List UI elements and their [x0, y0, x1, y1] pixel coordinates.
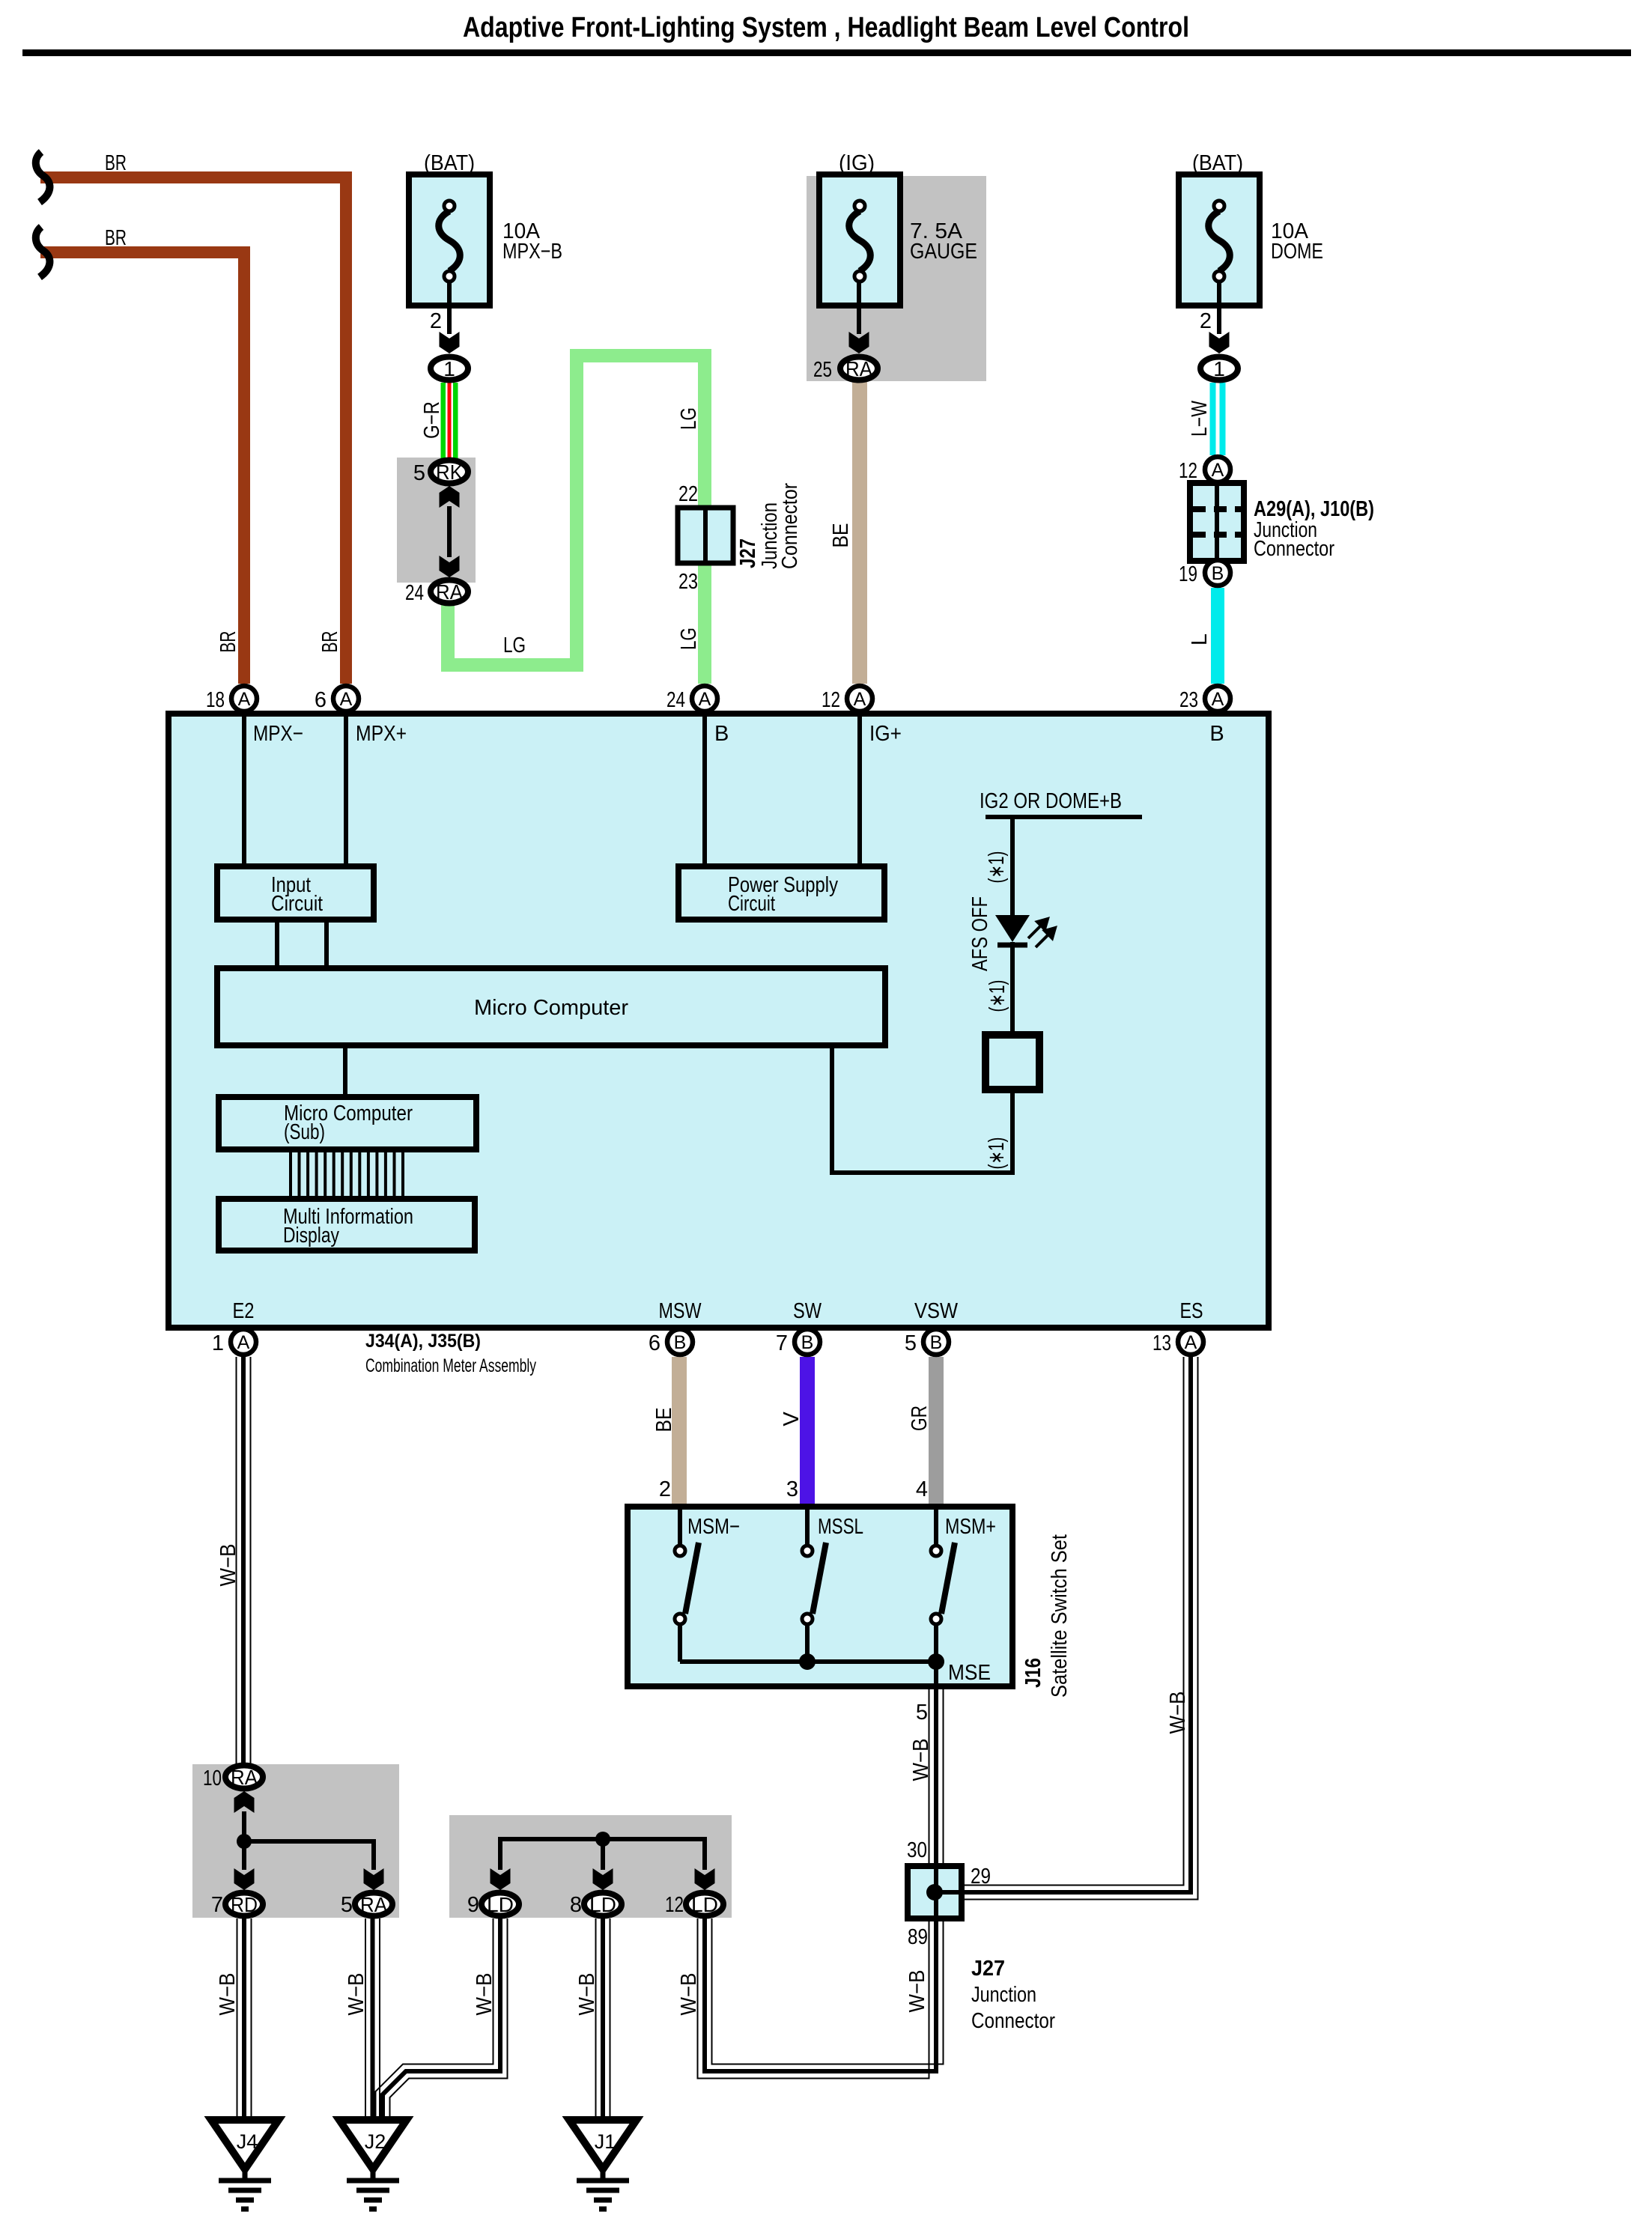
- wire micro computer to sub: [343, 1045, 347, 1097]
- svg-text:LG: LG: [677, 407, 701, 430]
- wire GR from VSW 5(B) to satellite pin 4: [929, 1357, 944, 1507]
- wire from GAUGE fuse: [857, 282, 861, 334]
- switch MSSL bottom contact: [802, 1614, 813, 1624]
- input circuit box: [217, 866, 374, 920]
- connector 12(A): [847, 686, 872, 711]
- wire dot to RA branch: [244, 1841, 374, 1870]
- micro computer box: [217, 968, 885, 1045]
- svg-text:19: 19: [1179, 562, 1197, 586]
- arrow into 25(RA): [849, 332, 869, 353]
- wire 12(A) to power supply: [857, 714, 862, 869]
- fuse 7.5A GAUGE (IG): [819, 174, 900, 306]
- wire LED to IG2 bus: [1010, 817, 1015, 915]
- svg-text:G−R: G−R: [420, 401, 444, 439]
- svg-text:MSM−: MSM−: [687, 1515, 740, 1539]
- LED light arrows: [1028, 919, 1055, 947]
- title underline rule: [22, 49, 1631, 56]
- switch MSSL blade: [813, 1543, 826, 1614]
- connector oval RA (24): [431, 580, 468, 604]
- svg-text:1: 1: [1213, 357, 1225, 380]
- svg-text:B: B: [714, 722, 729, 746]
- arrow down to 8(LD): [593, 1868, 613, 1890]
- wire W-B from E2 1(A) to shield 10(RA): [236, 1357, 237, 1764]
- grey background behind shield RA/RD connectors: [192, 1764, 399, 1918]
- wire L-W cyan from DOME 1 to 12(A) junction: [1210, 383, 1226, 455]
- svg-text:W−B: W−B: [1166, 1692, 1190, 1734]
- connector 1(A) E2: [231, 1329, 256, 1355]
- arrow up to 10(RA): [234, 1791, 255, 1813]
- svg-text:13: 13: [1153, 1331, 1171, 1355]
- svg-text:W−B: W−B: [473, 1973, 496, 2016]
- svg-text:6: 6: [649, 1331, 661, 1355]
- svg-text:BR: BR: [216, 631, 240, 653]
- LED cathode bar: [997, 943, 1027, 948]
- connector circle 12(A) A29: [1205, 457, 1230, 482]
- wire from MPX-B fuse pin 2: [447, 282, 452, 334]
- svg-text:1: 1: [212, 1331, 224, 1355]
- svg-text:RA: RA: [845, 357, 872, 380]
- connector 6(B) MSW: [667, 1329, 693, 1355]
- wires input circuit to micro computer: [275, 920, 279, 968]
- svg-text:B: B: [1209, 722, 1224, 746]
- connector 13(A) ES: [1178, 1329, 1203, 1355]
- connector oval 9(LD): [482, 1893, 519, 1916]
- svg-text:LG: LG: [677, 628, 701, 650]
- svg-text:W−B: W−B: [677, 1973, 701, 2016]
- svg-text:J16: J16: [1021, 1658, 1045, 1688]
- svg-text:12: 12: [822, 688, 840, 712]
- svg-text:Micro Computer: Micro Computer: [474, 996, 628, 1020]
- svg-text:LD: LD: [487, 1893, 514, 1916]
- fuse 10A MPX-B (BAT): [409, 174, 490, 306]
- svg-text:DOME: DOME: [1271, 240, 1323, 264]
- svg-text:A: A: [237, 1332, 250, 1353]
- grey background behind GAUGE fuse: [807, 176, 986, 381]
- switch MSM- wire stub: [678, 1507, 682, 1544]
- wire BE from MSW 6(B) to satellite pin 2: [672, 1357, 687, 1507]
- power supply circuit box: [678, 866, 884, 920]
- svg-text:J2: J2: [365, 2130, 386, 2153]
- svg-text:5: 5: [413, 461, 425, 485]
- svg-text:(Sub): (Sub): [284, 1120, 325, 1144]
- svg-text:5: 5: [341, 1893, 353, 1917]
- svg-text:LD: LD: [691, 1893, 718, 1916]
- svg-text:LD: LD: [589, 1893, 616, 1916]
- svg-text:2: 2: [430, 309, 442, 333]
- ground J2: [339, 2120, 407, 2209]
- svg-text:W−B: W−B: [909, 1739, 933, 1781]
- svg-text:A: A: [854, 689, 866, 710]
- svg-text:MSW: MSW: [659, 1299, 702, 1323]
- A29 vertical divider: [1215, 483, 1219, 561]
- svg-text:Connector: Connector: [1254, 537, 1334, 561]
- wire MSE to box edge: [934, 1662, 938, 1686]
- svg-text:GR: GR: [908, 1406, 932, 1431]
- junction dot shield left: [237, 1834, 252, 1849]
- wire W-B from 12(LD) to J27 pin 89: [698, 1918, 929, 2079]
- multi information display box: [219, 1199, 475, 1251]
- svg-text:J27: J27: [971, 1957, 1005, 1981]
- svg-text:Satellite Switch Set: Satellite Switch Set: [1048, 1534, 1072, 1698]
- arrow into connector 1 (MPX-B): [440, 332, 460, 353]
- svg-text:7: 7: [776, 1331, 788, 1355]
- svg-text:30: 30: [907, 1838, 927, 1862]
- svg-text:12: 12: [1179, 459, 1197, 483]
- switch MSM- bottom contact: [675, 1614, 685, 1624]
- svg-text:BR: BR: [105, 151, 127, 175]
- svg-text:A: A: [1185, 1332, 1197, 1353]
- svg-text:W−B: W−B: [344, 1973, 368, 2016]
- wire W-B from 5(RA) to ground J2: [365, 1918, 366, 2120]
- wire G-R red stripe: [448, 383, 452, 458]
- wire W-B from 8(LD) to ground J1: [595, 1918, 597, 2120]
- svg-text:Circuit: Circuit: [728, 892, 775, 916]
- wire 18(A) to input circuit: [242, 714, 246, 869]
- connector oval 1 (DOME): [1200, 357, 1238, 380]
- connector 24(A): [692, 686, 717, 711]
- svg-text:MPX+: MPX+: [356, 722, 407, 746]
- svg-text:IG+: IG+: [869, 722, 902, 746]
- svg-text:RK: RK: [436, 461, 463, 484]
- A29 dashed row lines: [1193, 506, 1241, 512]
- svg-text:RA: RA: [360, 1893, 387, 1916]
- wire 6(A) to input circuit: [344, 714, 348, 869]
- svg-text:29: 29: [971, 1865, 991, 1889]
- ground J1: [569, 2120, 637, 2209]
- svg-text:(∗1): (∗1): [985, 851, 1009, 884]
- connector 7(B) SW: [795, 1329, 820, 1355]
- switch MSM- to bus: [678, 1626, 682, 1662]
- wire 24(A) to power supply: [702, 714, 707, 869]
- junction connector J27 lower box: [908, 1866, 962, 1918]
- svg-text:MSM+: MSM+: [945, 1515, 996, 1539]
- svg-text:LG: LG: [503, 634, 526, 657]
- arrow down to 5(RA): [364, 1868, 384, 1890]
- connector 6(A): [333, 686, 359, 711]
- svg-text:B: B: [674, 1332, 687, 1353]
- svg-text:W−B: W−B: [216, 1973, 240, 2016]
- wire L-W white stripe: [1216, 383, 1220, 455]
- connector 23(A): [1205, 686, 1230, 711]
- arrow down to RA: [440, 556, 460, 577]
- wire resistor to LED: [1010, 942, 1015, 1035]
- AFS resistor square: [986, 1035, 1039, 1090]
- svg-text:2: 2: [1200, 309, 1212, 333]
- wire dot to RD: [242, 1841, 246, 1870]
- break symbol on lower BR wire: [36, 227, 50, 277]
- junction connector J27 box: [678, 508, 733, 563]
- svg-text:RA: RA: [231, 1766, 258, 1789]
- wire W-B from MSE pin 5 to J27 pin 30: [929, 1686, 930, 1866]
- svg-text:IG2 OR DOME+B: IG2 OR DOME+B: [980, 789, 1122, 813]
- svg-text:89: 89: [908, 1925, 928, 1949]
- svg-text:(BAT): (BAT): [424, 151, 475, 175]
- svg-text:RA: RA: [436, 580, 463, 604]
- svg-text:J1: J1: [595, 2130, 616, 2153]
- svg-text:ES: ES: [1180, 1299, 1203, 1323]
- hatch lines between sub and display: [289, 1149, 292, 1199]
- wire BE from 25(RA) to 12(A): [852, 378, 867, 684]
- svg-text:7: 7: [211, 1893, 223, 1917]
- switch MSSL wire stub: [805, 1507, 810, 1544]
- junction connector A29(A) J10(B) box: [1190, 483, 1244, 561]
- wire V from SW 7(B) to satellite pin 3: [800, 1357, 815, 1507]
- break symbol on upper BR wire: [36, 152, 50, 202]
- switch MSM+ blade: [941, 1543, 955, 1614]
- arrow down to 7(RD): [234, 1868, 255, 1890]
- svg-text:L: L: [1188, 634, 1212, 645]
- svg-text:Display: Display: [283, 1224, 339, 1248]
- svg-text:1: 1: [443, 357, 455, 380]
- svg-text:Adaptive Front-Lighting System: Adaptive Front-Lighting System , Headlig…: [463, 12, 1189, 43]
- svg-text:A: A: [1212, 460, 1224, 481]
- svg-text:6: 6: [315, 688, 327, 712]
- grey background behind RK/RA junction: [397, 458, 476, 583]
- svg-text:B: B: [930, 1332, 943, 1353]
- arrow down to 12(LD): [695, 1868, 715, 1890]
- svg-text:J4: J4: [237, 2130, 258, 2153]
- svg-text:Connector: Connector: [971, 2009, 1055, 2033]
- svg-text:W−B: W−B: [575, 1973, 599, 2016]
- svg-text:A: A: [1212, 689, 1224, 710]
- connector oval 1 (MPX-B): [431, 357, 468, 380]
- svg-text:12: 12: [665, 1893, 684, 1917]
- wire micro computer to AFS resistor loop: [832, 1045, 1012, 1173]
- svg-text:BR: BR: [105, 226, 127, 250]
- svg-text:W−B: W−B: [216, 1544, 240, 1587]
- svg-text:B: B: [801, 1332, 814, 1353]
- combination meter assembly box: [168, 714, 1269, 1328]
- svg-text:E2: E2: [233, 1299, 255, 1323]
- J27 divider: [703, 508, 708, 563]
- wire through J27 lower box horizontal: [935, 1890, 962, 1895]
- connector oval RA (gauge): [840, 357, 878, 380]
- svg-text:18: 18: [206, 688, 225, 712]
- svg-text:2: 2: [659, 1477, 671, 1501]
- svg-text:MSSL: MSSL: [818, 1515, 863, 1539]
- wire W-B from ES 13(A) down and left to J27 pin 29: [962, 1357, 1184, 1886]
- svg-text:V: V: [780, 1412, 804, 1427]
- connector oval 7(RD): [225, 1893, 263, 1916]
- wire from DOME fuse pin 2: [1217, 282, 1221, 334]
- svg-text:25: 25: [813, 358, 832, 382]
- wire LG from RA down-right loop to 24(A) via J27: [448, 599, 577, 665]
- LED AFS OFF triangle: [995, 915, 1030, 942]
- switch MSM+ top contact: [931, 1546, 941, 1556]
- wire L from 19(B) to 23(A): [1211, 588, 1224, 684]
- LD group bus: [500, 1839, 705, 1870]
- svg-text:A: A: [340, 689, 353, 710]
- svg-text:MPX−: MPX−: [253, 722, 303, 746]
- svg-text:(IG): (IG): [839, 151, 875, 175]
- svg-text:23: 23: [678, 570, 698, 594]
- switch MSM- blade: [685, 1543, 699, 1614]
- svg-text:(BAT): (BAT): [1192, 151, 1243, 175]
- IG2 OR DOME+B bus line: [986, 815, 1142, 819]
- svg-text:W−B: W−B: [905, 1970, 929, 2013]
- fuse 10A DOME (BAT): [1179, 174, 1260, 306]
- svg-text:3: 3: [786, 1477, 798, 1501]
- svg-text:B: B: [1212, 563, 1224, 584]
- wire W-B from 7(RD) to ground J4: [237, 1918, 238, 2120]
- svg-text:A: A: [238, 689, 251, 710]
- svg-text:GAUGE: GAUGE: [910, 240, 977, 264]
- satellite switch set box J16: [628, 1507, 1012, 1686]
- wire RK to RA: [447, 506, 452, 557]
- svg-text:4: 4: [916, 1477, 928, 1501]
- connector circle 19(B): [1205, 560, 1230, 586]
- wire G-R white gaps: [446, 383, 453, 458]
- svg-text:A: A: [699, 689, 711, 710]
- connector oval 5(RA): [355, 1893, 392, 1916]
- wire dot to 8LD: [601, 1839, 605, 1870]
- svg-text:J27: J27: [736, 538, 760, 568]
- svg-text:RD: RD: [231, 1893, 258, 1916]
- svg-text:(∗1): (∗1): [985, 1137, 1009, 1170]
- svg-text:24: 24: [405, 581, 424, 605]
- svg-text:24: 24: [666, 688, 685, 712]
- svg-text:Junction: Junction: [971, 1983, 1036, 2007]
- svg-text:Connector: Connector: [778, 483, 802, 569]
- svg-text:5: 5: [905, 1331, 917, 1355]
- bus junction dot MSSL: [799, 1653, 816, 1670]
- switch MSM+ bottom contact: [931, 1614, 941, 1624]
- arrow into connector 1 (DOME): [1209, 332, 1230, 353]
- wire 10RA to junction dot: [242, 1811, 246, 1841]
- switch MSSL top contact: [802, 1546, 813, 1556]
- wire G-R green stripes from connector 1 to RK: [441, 383, 458, 458]
- svg-text:10: 10: [203, 1766, 222, 1790]
- svg-text:L−W: L−W: [1188, 401, 1212, 437]
- svg-text:(∗1): (∗1): [986, 980, 1009, 1012]
- junction dot LD group: [595, 1832, 610, 1847]
- svg-text:MPX−B: MPX−B: [502, 240, 562, 264]
- bus junction dot MSE: [928, 1653, 944, 1670]
- svg-text:9: 9: [467, 1893, 479, 1917]
- wire W-B from 9(LD) jog to ground J2: [376, 1918, 494, 2120]
- arrow down to 9(LD): [491, 1868, 511, 1890]
- switch MSSL to bus: [805, 1626, 810, 1662]
- J27 lower junction dot: [926, 1884, 943, 1901]
- svg-text:J34(A), J35(B): J34(A), J35(B): [365, 1331, 481, 1352]
- svg-text:5: 5: [916, 1701, 928, 1725]
- wire BR lower horizontal+vertical to 18(A): [40, 252, 244, 684]
- switch MSM+ wire stub: [934, 1507, 938, 1544]
- connector oval RK: [431, 461, 468, 484]
- wire BR upper horizontal+vertical to 6(A): [40, 177, 346, 684]
- svg-text:AFS OFF: AFS OFF: [968, 896, 992, 971]
- connector 18(A): [231, 686, 257, 711]
- connector oval 8(LD): [584, 1893, 622, 1916]
- svg-text:22: 22: [678, 482, 698, 506]
- wire through J27 lower box vertical: [934, 1866, 938, 1918]
- svg-text:BR: BR: [318, 631, 342, 653]
- connector 5(B) VSW: [923, 1329, 949, 1355]
- svg-text:Circuit: Circuit: [271, 892, 323, 916]
- switch MSM+ to bus: [934, 1626, 938, 1662]
- svg-text:Combination Meter Assembly: Combination Meter Assembly: [365, 1355, 536, 1376]
- svg-text:VSW: VSW: [914, 1299, 959, 1323]
- connector oval 12(LD): [686, 1893, 723, 1916]
- arrow up to RK: [440, 486, 460, 508]
- svg-text:8: 8: [570, 1893, 582, 1917]
- switch common bus: [680, 1659, 936, 1664]
- switch MSM- top contact: [675, 1546, 685, 1556]
- svg-text:MSE: MSE: [948, 1661, 991, 1685]
- svg-text:BE: BE: [652, 1408, 676, 1432]
- svg-text:23: 23: [1179, 688, 1198, 712]
- grey background behind LD connectors: [449, 1815, 732, 1918]
- ground J4: [211, 2120, 279, 2209]
- svg-text:BE: BE: [829, 523, 853, 548]
- micro computer sub box: [219, 1097, 476, 1149]
- svg-text:SW: SW: [793, 1299, 822, 1323]
